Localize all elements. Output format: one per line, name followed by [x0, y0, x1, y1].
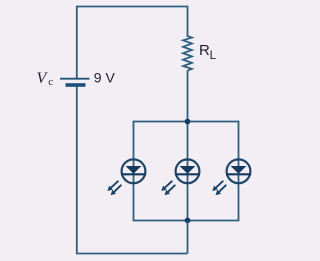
node junction bottom: [185, 218, 191, 224]
LED D2: [175, 159, 200, 183]
LED D3 light arrows: [212, 181, 226, 195]
wire bottom: [76, 253, 188, 255]
svg-text:9 V: 9 V: [94, 70, 116, 86]
wire right (resistor to top junction): [187, 71, 189, 122]
wire left upper (top to battery): [76, 6, 78, 78]
node junction top: [185, 119, 191, 125]
LED D3: [226, 159, 251, 183]
battery V_C 9V: [60, 79, 90, 87]
wire center through box: [187, 122, 189, 221]
wire top (battery + to resistor): [77, 6, 188, 8]
LED D1 light arrows: [107, 181, 121, 195]
svg-text:R: R: [199, 42, 210, 59]
wire left lower (battery to bottom): [76, 87, 78, 254]
label 9 V: [94, 70, 116, 86]
label R_L: [199, 42, 217, 62]
svg-text:c: c: [48, 76, 53, 88]
svg-text:L: L: [210, 50, 217, 62]
resistor R_L: [183, 36, 192, 71]
label V_C: [37, 70, 54, 88]
LED D1: [121, 159, 146, 183]
wire bottom center (junction to bottom wire): [187, 221, 189, 254]
LED D2 light arrows: [161, 181, 175, 195]
wire LED box rectangle: [134, 122, 239, 221]
wire right upper (top to resistor): [187, 6, 189, 37]
